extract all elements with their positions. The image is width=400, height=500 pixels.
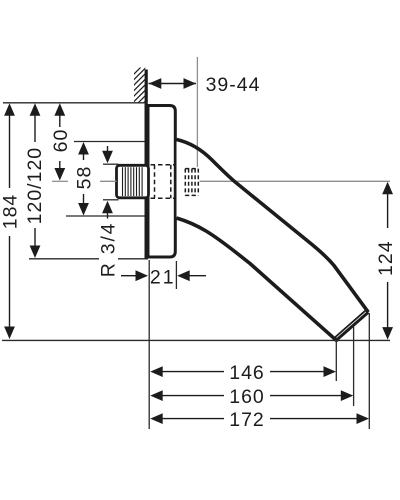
R3/4 pipe bottom tick (103, 199, 119, 201)
svg-text:172: 172 (229, 409, 265, 431)
extension line escutcheon top (3, 102, 147, 104)
svg-text:R 3/4: R 3/4 (98, 222, 120, 278)
svg-text:184: 184 (0, 194, 22, 230)
svg-text:60: 60 (50, 129, 72, 153)
R3/4 pipe top tick (103, 163, 119, 165)
spout lower edge (177, 218, 337, 340)
hidden pipe inside escutcheon (dashed) (151, 165, 175, 198)
dimension 60 (59, 108, 61, 176)
dimension 184 (9, 108, 11, 334)
extension line spout lower start (58 bottom) (66, 215, 147, 217)
svg-text:21: 21 (150, 267, 176, 289)
dimension 58 (83, 147, 85, 212)
svg-text:39-44: 39-44 (206, 74, 261, 96)
R 3/4 arrows (107, 146, 109, 219)
svg-text:146: 146 (229, 362, 265, 384)
escutcheon/wall merged left edge (145, 104, 150, 259)
aux grey line: pipe axis / 124 top reference (52, 180, 68, 182)
extension line spout tip (146) (335, 341, 337, 381)
dimension 146 (160, 371, 326, 373)
extension line from wall face down to bottom dims (148, 260, 150, 429)
escutcheon (146, 106, 175, 258)
extension line escutcheon bottom (29, 258, 99, 260)
svg-text:124: 124 (375, 240, 397, 276)
extension line spout upper start (58 top) (74, 141, 147, 143)
svg-text:160: 160 (229, 386, 265, 408)
bottom reference line (spout outlet level) (2, 339, 390, 341)
dimension 160 (160, 395, 343, 397)
dimension 39-44 (149, 83, 197, 85)
thread lines (123, 167, 143, 196)
dimension 120/120 (34, 108, 36, 252)
spout outlet face (double line) (336, 312, 368, 340)
spout tip junction (334, 338, 338, 342)
threaded pipe R 3/4 (117, 165, 149, 198)
extension line escutcheon right for 21 (175, 261, 177, 289)
extension line outlet center (160) (353, 327, 355, 406)
spout body fill (177, 140, 369, 341)
spout upper edge (177, 140, 369, 313)
dimension 124 (387, 192, 389, 330)
extension line outlet top corner (172) (368, 313, 370, 429)
hidden connector in spout (dashed) (185, 169, 198, 196)
dimension 172 (160, 418, 359, 420)
svg-text:120/120: 120/120 (24, 147, 46, 225)
dimension 21 (121, 275, 206, 277)
aux grey line: pipe end vertical (39-44 right) (196, 57, 198, 167)
svg-text:58: 58 (74, 166, 96, 190)
wall line (145, 70, 148, 259)
